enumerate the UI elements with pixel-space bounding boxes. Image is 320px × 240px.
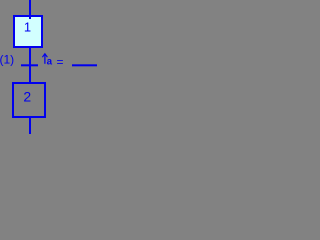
step box 1 (active step, cyan fill)	[14, 16, 42, 47]
background	[0, 0, 97, 134]
wire stub entering step 1	[29, 17, 31, 19]
step box 2	[13, 83, 45, 117]
blank line for condition value	[72, 64, 97, 66]
wire top (into step 1)	[29, 0, 31, 17]
wire below step 2	[29, 117, 31, 134]
rising-edge arrow of condition	[42, 54, 47, 64]
svg-text:a: a	[47, 56, 53, 67]
svg-text:1: 1	[24, 19, 31, 34]
svg-text:2: 2	[23, 88, 31, 104]
wire between step 1 and step 2	[29, 47, 31, 82]
svg-text:(1): (1)	[0, 53, 14, 67]
svg-text:=: =	[57, 55, 64, 69]
transition bar	[21, 64, 38, 66]
